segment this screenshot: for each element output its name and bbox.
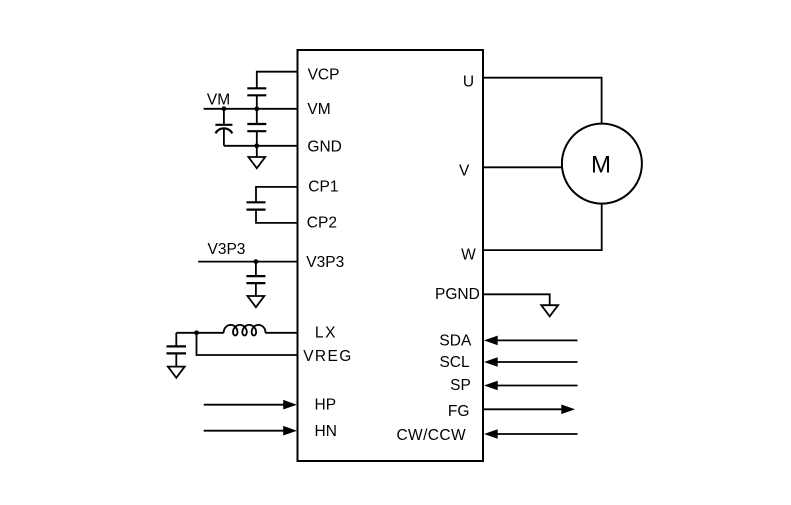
svg-text:SP: SP: [450, 377, 471, 394]
svg-text:CW/CCW: CW/CCW: [396, 427, 466, 444]
wire SP arrow: [484, 381, 578, 391]
wire U: [483, 78, 602, 124]
node VM-a: [222, 106, 227, 111]
svg-text:HP: HP: [315, 397, 337, 414]
wire CP1: [256, 187, 298, 202]
wire V: [483, 166, 562, 168]
svg-text:CP1: CP1: [308, 179, 338, 196]
ground VREG cap: [168, 353, 185, 377]
svg-text:W: W: [461, 246, 476, 263]
wire HP arrow: [204, 400, 297, 410]
inductor L1: [224, 325, 266, 336]
wire HN arrow: [204, 426, 297, 436]
wire SDA arrow: [484, 336, 578, 346]
svg-text:LX: LX: [315, 325, 337, 342]
motor M1: [562, 124, 642, 204]
svg-text:CP2: CP2: [307, 215, 337, 232]
wire VM to C3: [256, 109, 258, 124]
svg-text:VM: VM: [207, 92, 230, 109]
capacitor C1: [247, 88, 266, 95]
ground GND pin: [248, 146, 265, 168]
svg-text:VREG: VREG: [303, 348, 353, 365]
node GND: [254, 143, 259, 148]
svg-text:M: M: [591, 152, 611, 179]
svg-text:SCL: SCL: [439, 354, 470, 371]
wire VM to C2: [223, 109, 225, 125]
svg-text:U: U: [463, 73, 474, 90]
wire W: [483, 204, 602, 251]
wire FG arrow: [483, 405, 575, 415]
wire CP2: [256, 210, 298, 223]
capacitor C3: [247, 124, 266, 131]
svg-text:V3P3: V3P3: [208, 241, 246, 258]
wire C3 to GND: [256, 131, 258, 146]
wire SCL arrow: [484, 357, 578, 367]
wire C2 to GND: [223, 130, 225, 146]
IC U1 motor driver: [298, 50, 484, 461]
node V3P3: [254, 259, 259, 264]
wire V3P3 to C5: [255, 262, 257, 277]
svg-text:V3P3: V3P3: [306, 254, 344, 271]
ground PGND: [541, 305, 558, 316]
svg-text:PGND: PGND: [435, 286, 480, 303]
capacitor C6: [167, 346, 187, 353]
capacitor C5: [246, 276, 265, 283]
svg-text:VCP: VCP: [308, 66, 340, 83]
svg-text:HN: HN: [315, 423, 337, 440]
wire VCP stub: [257, 72, 298, 89]
wire GND: [224, 145, 298, 147]
svg-text:SDA: SDA: [439, 333, 472, 350]
svg-text:VM: VM: [307, 101, 330, 118]
wire VM: [204, 108, 298, 110]
wire VREG: [197, 333, 298, 355]
svg-text:GND: GND: [307, 138, 341, 155]
node VREG: [194, 330, 199, 335]
wire V3P3: [198, 261, 297, 263]
capacitor C2: [215, 125, 232, 134]
wire L1 to node: [176, 332, 224, 334]
node VM-b: [254, 106, 259, 111]
svg-text:FG: FG: [448, 403, 470, 420]
ground V3P3 cap: [248, 283, 265, 307]
svg-text:V: V: [459, 163, 470, 180]
capacitor C4: [247, 202, 266, 209]
wire LX: [265, 332, 297, 334]
wire node to C6: [175, 333, 177, 347]
wire PGND: [483, 294, 550, 305]
wire CW/CCW arrow: [484, 429, 578, 439]
wire C1 to VM: [256, 95, 258, 109]
